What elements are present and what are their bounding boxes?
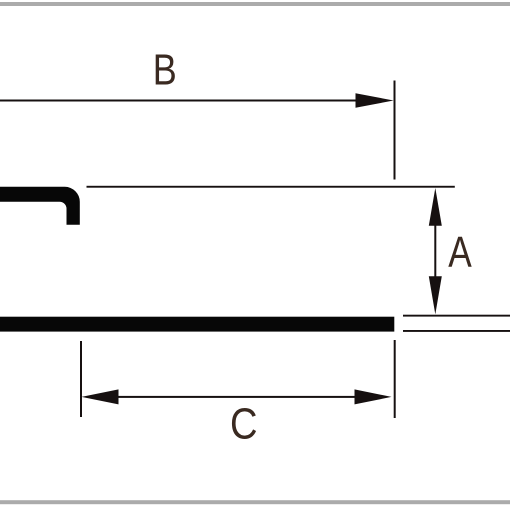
- profile bottom panel (thick bar): [0, 317, 394, 332]
- extension line C left (x=81): [80, 341, 82, 417]
- arrowhead B (right): [356, 93, 394, 107]
- profile hook (top flange with down leg): [0, 187, 80, 225]
- thin line: panel continuation top: [403, 315, 510, 317]
- arrowhead A up: [429, 188, 442, 226]
- arrowhead A down: [429, 276, 442, 314]
- svg-text:C: C: [230, 400, 258, 449]
- svg-text:B: B: [153, 46, 177, 95]
- dimension line B: [0, 100, 356, 102]
- top gray border: [0, 2, 510, 6]
- bottom gray border: [0, 500, 510, 504]
- extension line C right (x=394.7): [394, 340, 396, 418]
- svg-text:A: A: [448, 228, 472, 277]
- dimension line A (vertical): [434, 208, 436, 294]
- arrowhead C left: [82, 389, 119, 404]
- arrowhead C right: [355, 389, 392, 404]
- extension line for B (right, x=394.5): [394, 81, 396, 180]
- dimension line C: [110, 396, 363, 398]
- thin line: panel continuation bottom: [403, 330, 510, 332]
- thin line: top surface extension: [87, 186, 455, 188]
